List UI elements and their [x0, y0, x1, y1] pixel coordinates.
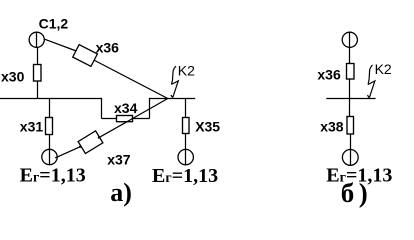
- svg-text:Eг=1,13: Eг=1,13: [20, 165, 86, 187]
- resistor x38 (b): [347, 117, 354, 135]
- svg-text:Eг=1,13: Eг=1,13: [152, 165, 218, 187]
- svg-text:x38: x38: [320, 119, 344, 135]
- svg-text:C1,2: C1,2: [39, 16, 69, 32]
- svg-text:x36: x36: [96, 39, 120, 55]
- wire x31 branch vertical: [49, 98, 51, 165]
- svg-text:K2: K2: [178, 63, 195, 79]
- wire detour right vertical: [149, 98, 151, 119]
- generator circle bottom (b): [342, 150, 358, 166]
- svg-text:x36: x36: [317, 67, 341, 83]
- wire x30 branch vertical: [36, 32, 38, 48]
- svg-text:x37: x37: [107, 152, 131, 168]
- svg-text:б): б): [341, 178, 373, 208]
- wire detour bottom horizontal: [102, 118, 150, 120]
- node dot x37 right: [98, 136, 100, 138]
- svg-text:X35: X35: [195, 119, 220, 135]
- diagram b: generator circle top: [342, 32, 357, 47]
- node dot x37 left: [79, 146, 81, 148]
- wire bus right segment: [150, 97, 196, 99]
- wire x37 diagonal: [55, 99, 168, 158]
- resistor x31: [46, 118, 53, 135]
- wire X35 branch vertical: [185, 98, 187, 165]
- short-circuit lightning K2 (left): [171, 66, 179, 98]
- wire x36 diagonal: [45, 39, 168, 98]
- resistor X35: [183, 118, 190, 134]
- svg-text:x30: x30: [1, 69, 25, 85]
- svg-text:K2: K2: [375, 61, 392, 77]
- resistor x36: [73, 45, 98, 67]
- resistor x30: [34, 65, 42, 82]
- wire bus (b): [326, 97, 375, 99]
- svg-text:x34: x34: [114, 100, 138, 116]
- generator C1,2 circle: [29, 32, 44, 47]
- wire vertical main (b): [349, 32, 351, 116]
- svg-text:а): а): [110, 178, 132, 207]
- wire bus left segment: [0, 97, 102, 99]
- svg-text:x31: x31: [20, 119, 44, 135]
- resistor x34: [117, 116, 133, 122]
- generator circle bottom-left: [42, 149, 57, 164]
- short-circuit lightning K2 (b): [367, 65, 375, 98]
- wire detour left vertical: [101, 98, 103, 119]
- resistor x36 (b): [347, 64, 355, 80]
- generator circle mid-bottom: [178, 149, 193, 164]
- wire lower vertical (b): [350, 134, 352, 165]
- resistor x37: [78, 131, 103, 154]
